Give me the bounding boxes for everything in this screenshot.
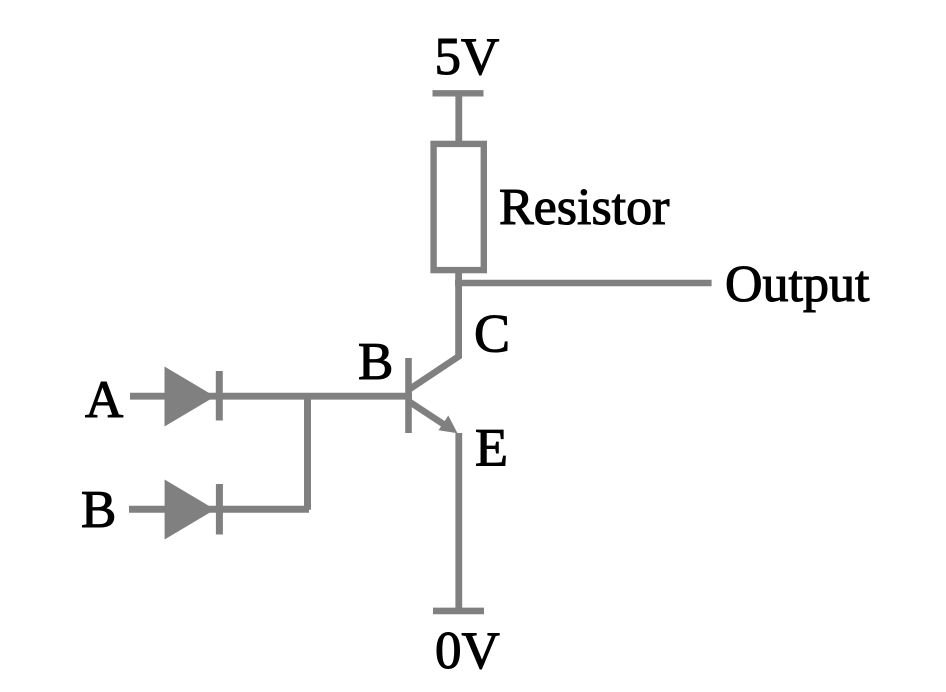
transistor Q1 emitter diagonal [409,402,447,427]
svg-text:C: C [474,304,510,364]
ground rail bar 0V [433,608,484,615]
transistor Q1 base bar [405,358,412,433]
diode D2 cathode bar [216,484,223,535]
wire 5V bar to resistor [455,93,462,144]
svg-text:E: E [475,418,508,478]
wire resistor to collector node [455,270,462,358]
wire output [455,280,712,286]
transistor Q1 emitter arrowhead [439,416,458,434]
svg-text:A: A [85,371,123,429]
svg-text:Output: Output [725,256,870,313]
svg-text:0V: 0V [435,622,500,680]
resistor R1 [434,144,484,270]
wire input B to junction [129,506,309,513]
diode D1 triangle [165,367,216,427]
wire input A to transistor base [130,393,412,400]
power rail bar 5V [433,90,484,96]
svg-text:5V: 5V [435,28,500,86]
wire junction vertical A-B [304,396,311,510]
diode D1 cathode bar [216,371,223,421]
svg-text:B: B [358,333,393,391]
diode D2 triangle [165,480,215,540]
svg-text:Resistor: Resistor [499,179,669,236]
transistor Q1 collector diagonal [409,356,460,390]
wire emitter to ground [455,433,462,610]
svg-text:B: B [81,481,116,539]
